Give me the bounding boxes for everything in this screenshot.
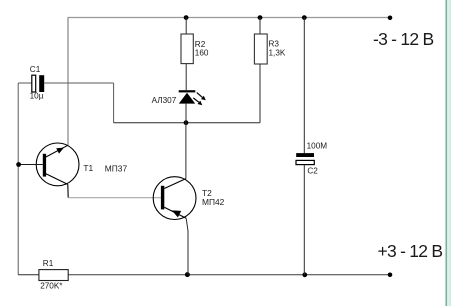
node: T1 base junction: [16, 162, 21, 167]
capacitor C1: [32, 75, 44, 92]
svg-text:1,3K: 1,3K: [269, 48, 286, 57]
wire: T2 emitter to positive rail: [186, 218, 188, 274]
wire: C1 branch vertical drop: [113, 83, 115, 123]
wire: T1 emitter vertical to negative rail: [67, 18, 69, 146]
LED emission arrow 2: [193, 98, 202, 105]
svg-text:R1: R1: [43, 259, 54, 268]
wire: C1 right lead: [44, 82, 113, 84]
resistor R2: [181, 34, 193, 64]
wire: R2 bottom lead: [185, 64, 187, 91]
negative supply rail: [68, 17, 390, 19]
node: T2 emitter junction: [185, 272, 190, 277]
node: C2 bottom junction: [302, 272, 307, 277]
node: rail end terminal dot: [388, 15, 393, 20]
wire: C1 left lead: [18, 82, 32, 84]
node: rail end terminal dot: [388, 273, 393, 278]
svg-text:270K*: 270K*: [40, 281, 63, 290]
page edge shading: [444, 0, 451, 306]
svg-text:+3 - 12 В: +3 - 12 В: [378, 241, 443, 261]
wire: left vertical bus: [17, 83, 19, 275]
svg-text:C2: C2: [307, 166, 318, 175]
wire: T1 collector to T2 base: [68, 197, 161, 199]
svg-text:-3 - 12 В: -3 - 12 В: [373, 29, 433, 49]
node: R3 top junction: [258, 15, 263, 20]
svg-text:C1: C1: [30, 65, 41, 74]
positive supply rail: [68, 274, 390, 276]
svg-text:10µ: 10µ: [30, 92, 44, 101]
wire: R3 top lead: [259, 18, 261, 35]
LED VD АЛ307 cathode bar: [179, 90, 196, 92]
wire: LED anode lead: [185, 104, 187, 123]
node: C2 top junction: [302, 15, 307, 20]
svg-text:R3: R3: [269, 39, 280, 48]
svg-text:100M: 100M: [307, 142, 328, 151]
wire: horizontal net C1/R3/LED anode: [114, 122, 260, 124]
LED emission arrow 1: [197, 93, 206, 101]
wire: R3 bottom lead: [259, 64, 261, 123]
wire: T1 base lead: [18, 164, 43, 166]
resistor R1: [39, 270, 68, 281]
svg-text:АЛ307: АЛ307: [152, 96, 177, 105]
transistor T2 (МП42): [153, 177, 196, 220]
wire: T2 collector vertical: [185, 123, 187, 179]
wire: C2 top lead: [303, 18, 305, 154]
capacitor C2: [296, 153, 314, 164]
node: R2 top junction: [184, 15, 189, 20]
resistor R3: [254, 34, 267, 64]
svg-text:МП37: МП37: [105, 163, 128, 173]
transistor T1 (МП37): [36, 143, 79, 198]
wire: R2 top lead: [185, 18, 187, 35]
svg-text:160: 160: [195, 49, 209, 58]
svg-text:МП42: МП42: [202, 197, 225, 207]
node: LED anode junction: [184, 120, 189, 125]
LED VD АЛ307 triangle: [179, 93, 195, 104]
page edge line: [445, 0, 447, 306]
svg-text:T1: T1: [83, 163, 93, 173]
wire: R1 left lead: [18, 274, 39, 276]
wire: C2 bottom lead: [303, 165, 305, 275]
